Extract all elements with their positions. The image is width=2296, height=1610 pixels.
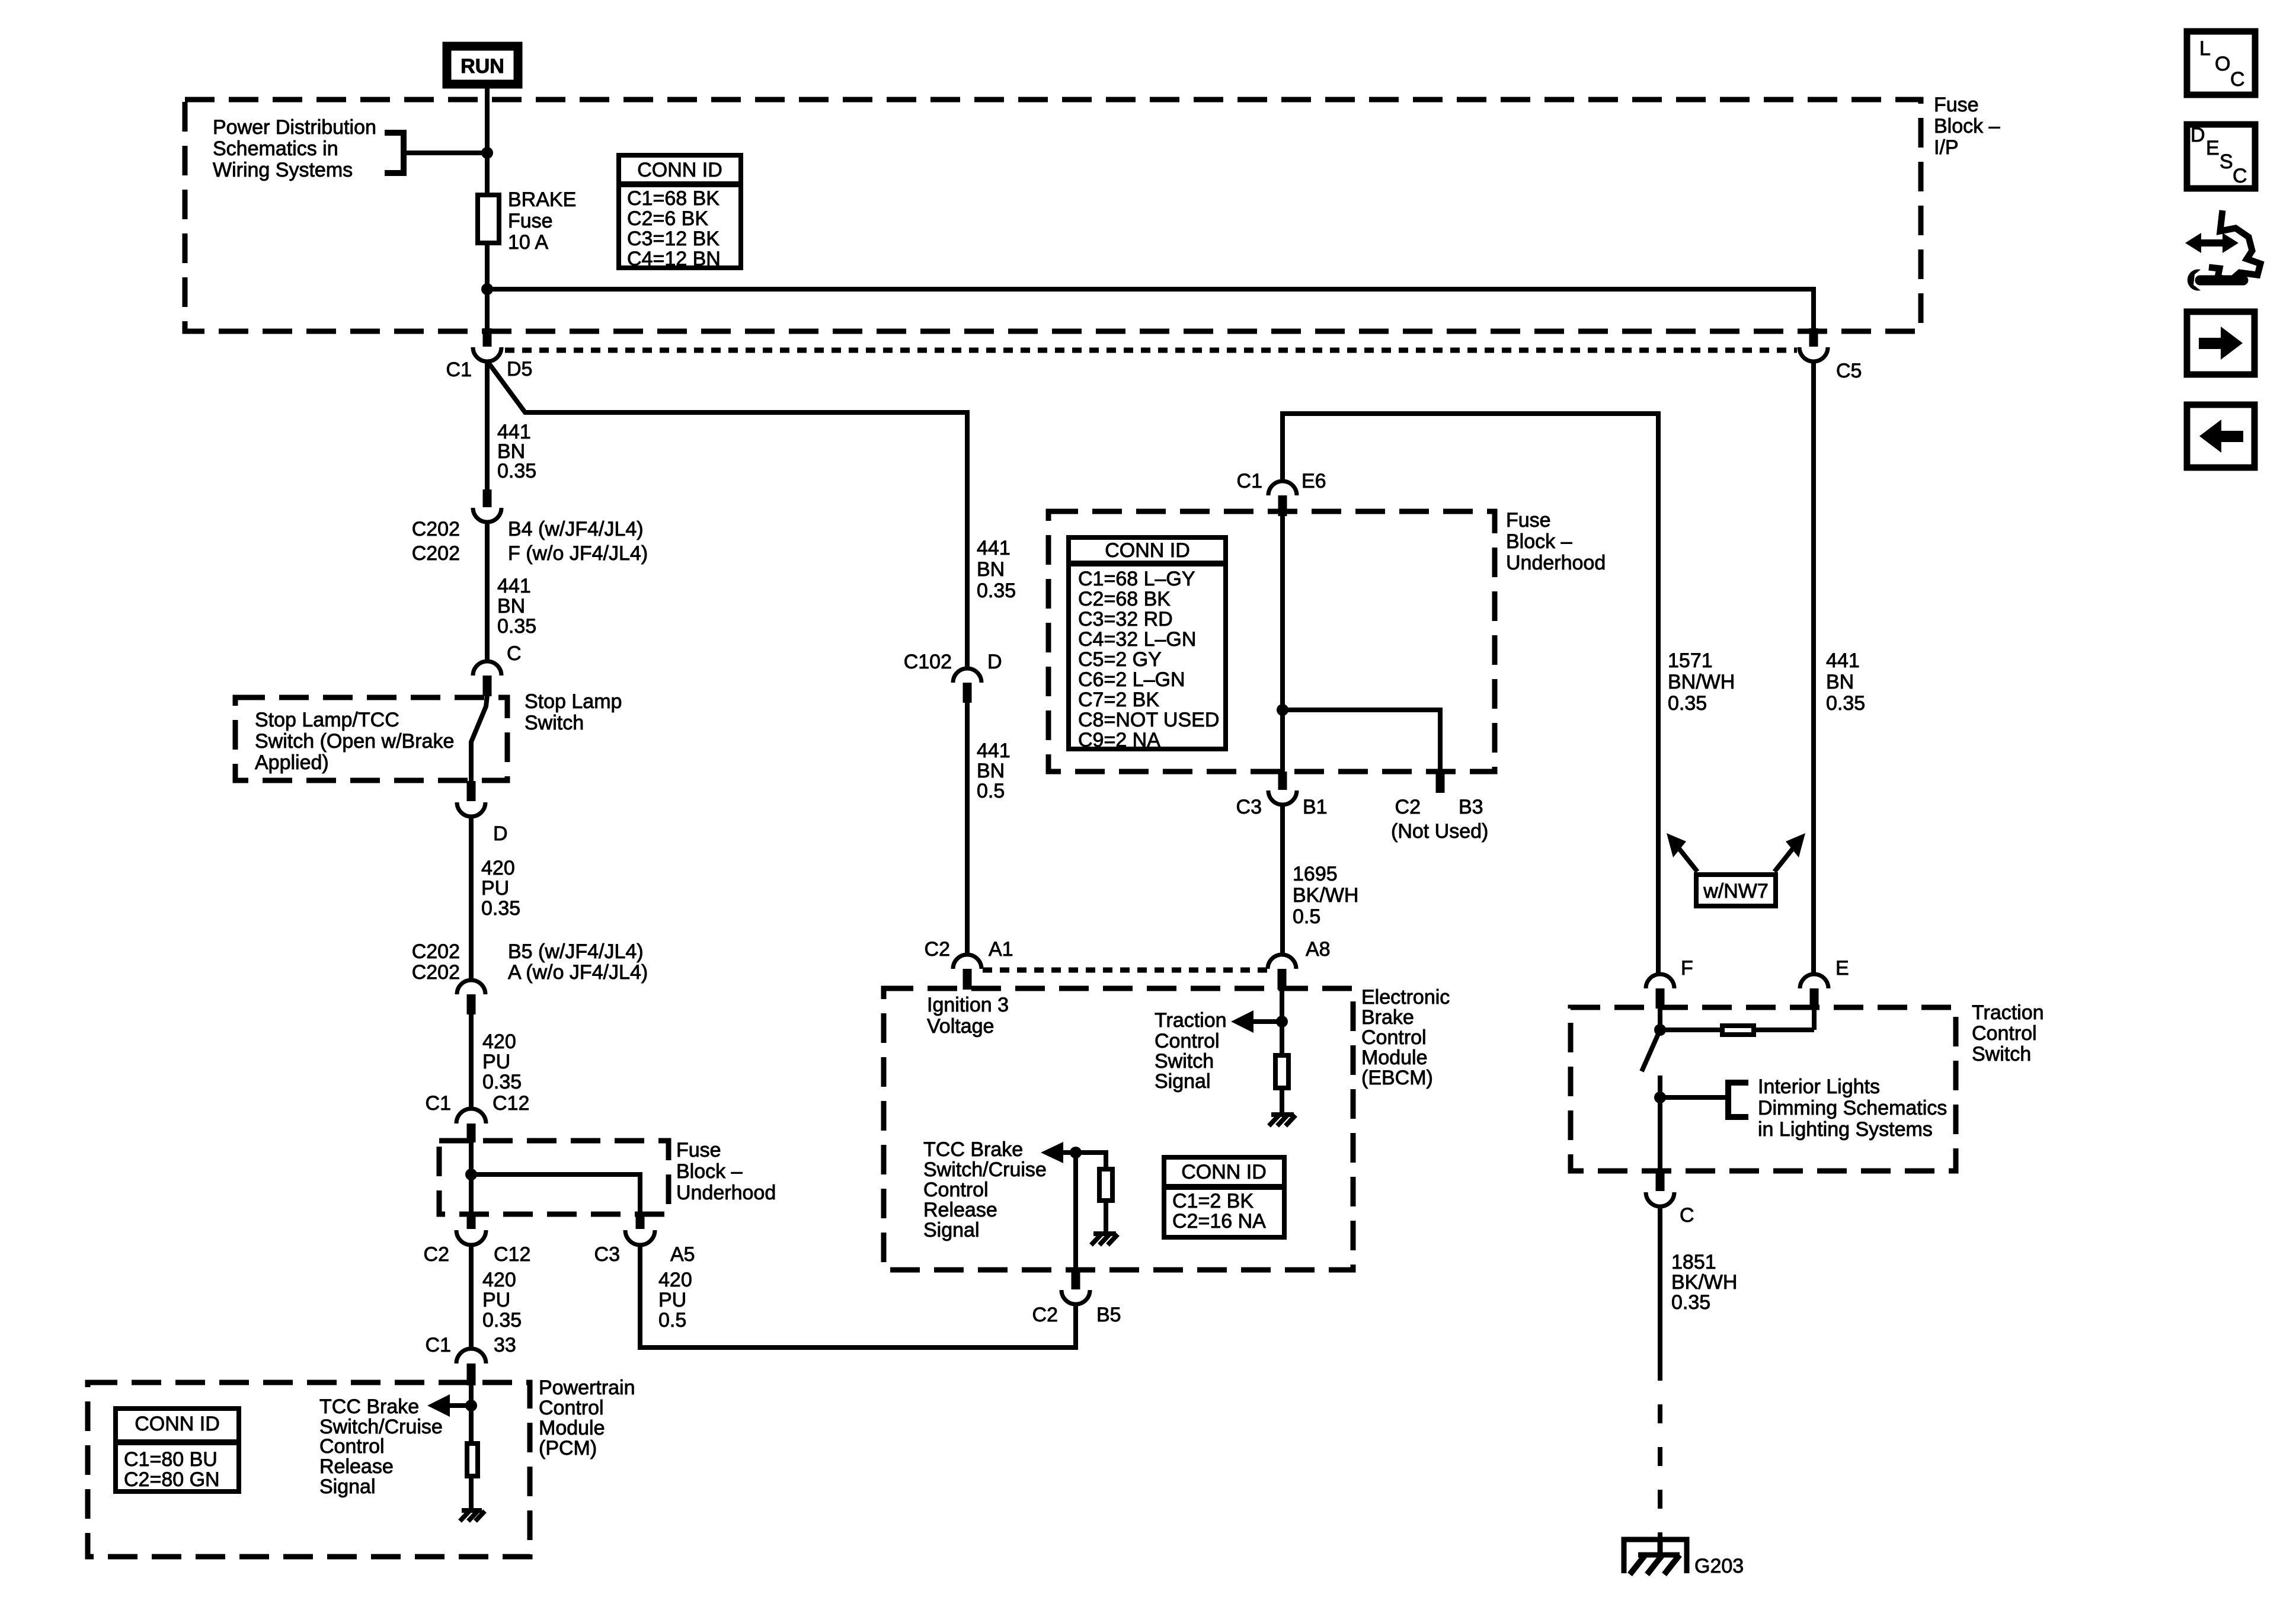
svg-text:Traction: Traction (1972, 1001, 2044, 1024)
fuse block underhood box (left) (439, 1141, 669, 1214)
svg-text:Dimming Schematics: Dimming Schematics (1758, 1097, 1947, 1119)
connector C arc (473, 661, 501, 676)
traction control switch box (1571, 1007, 1956, 1171)
wire TCC resistor to ground (1104, 1201, 1108, 1234)
dotted connector face line C1-C5 (505, 348, 1797, 353)
label C3 / B1 (1236, 796, 1328, 818)
svg-text:Traction: Traction (1155, 1009, 1227, 1032)
junction dot below fuse (481, 283, 493, 295)
svg-text:0.35: 0.35 (1826, 692, 1865, 715)
svg-text:C12: C12 (494, 1243, 530, 1266)
svg-text:C2: C2 (1395, 796, 1421, 818)
svg-text:Stop Lamp: Stop Lamp (525, 690, 622, 713)
svg-text:0.5: 0.5 (658, 1309, 686, 1331)
CONN ID table (PCM) (113, 1409, 241, 1491)
svg-text:Fuse: Fuse (676, 1139, 721, 1161)
svg-text:441: 441 (977, 740, 1011, 762)
svg-text:D: D (987, 651, 1002, 673)
svg-text:Underhood: Underhood (1506, 552, 1606, 574)
connector E6 stub (1278, 495, 1287, 516)
wire B1 to A8 (1280, 805, 1285, 956)
stop lamp switch label (525, 690, 622, 734)
svg-text:Block –: Block – (676, 1160, 743, 1183)
svg-text:C6=2 L–GN: C6=2 L–GN (1078, 668, 1185, 691)
svg-text:CONN ID: CONN ID (637, 159, 722, 181)
wire fuse to junction (485, 243, 490, 329)
wire C202 to C1/C12 (469, 1014, 474, 1109)
connector C2/B5 arc (1061, 1290, 1090, 1304)
svg-text:Signal: Signal (1155, 1070, 1211, 1093)
wire E6 branch (1283, 414, 1658, 975)
svg-text:E: E (1835, 957, 1849, 980)
svg-text:Signal: Signal (319, 1475, 376, 1498)
svg-text:D5: D5 (507, 358, 532, 380)
svg-text:C9=2 NA: C9=2 NA (1078, 729, 1160, 751)
svg-text:BRAKE: BRAKE (508, 188, 576, 211)
PCM label (539, 1377, 635, 1459)
svg-text:D: D (493, 822, 508, 845)
svg-text:0.35: 0.35 (1671, 1291, 1710, 1314)
svg-text:420: 420 (658, 1269, 692, 1291)
in-line connector C102 stub (963, 683, 972, 703)
wire D to C202 (469, 817, 474, 980)
svg-text:10 A: 10 A (508, 231, 548, 254)
svg-text:Fuse: Fuse (1934, 94, 1979, 116)
connector C3/A5 stub (636, 1214, 645, 1229)
svg-text:CONN ID: CONN ID (135, 1413, 220, 1435)
svg-text:w/NW7: w/NW7 (1703, 880, 1769, 902)
svg-text:C3: C3 (594, 1243, 620, 1266)
svg-text:0.35: 0.35 (497, 615, 536, 638)
PCM ground (460, 1510, 485, 1521)
junction dot at bracket (481, 147, 493, 159)
fuse BRAKE 10A symbol (478, 195, 499, 243)
interior lights bracket (1660, 1083, 1748, 1117)
svg-text:E: E (2206, 137, 2220, 159)
svg-text:B5: B5 (1096, 1304, 1121, 1326)
svg-text:F (w/o JF4/JL4): F (w/o JF4/JL4) (508, 542, 648, 565)
svg-text:Switch: Switch (525, 712, 584, 734)
svg-text:1695: 1695 (1293, 863, 1338, 885)
svg-text:Powertrain: Powertrain (539, 1377, 635, 1399)
ground G203 (1624, 1538, 1687, 1574)
svg-text:0.35: 0.35 (1668, 692, 1707, 715)
svg-text:A1: A1 (989, 938, 1013, 961)
svg-text:C4=12 BN: C4=12 BN (627, 248, 721, 270)
wire TCC junction down to B5 (1073, 1153, 1078, 1271)
EBCM label (1361, 986, 1450, 1089)
label C102 / D (904, 651, 1002, 673)
PCM box (88, 1382, 530, 1557)
connector C2/B3 stub (not used) (1436, 772, 1445, 793)
svg-text:in Lighting Systems: in Lighting Systems (1758, 1118, 1933, 1141)
svg-text:TCC Brake: TCC Brake (923, 1138, 1023, 1161)
svg-text:0.35: 0.35 (481, 897, 520, 920)
Power Distribution Schematics note (213, 116, 376, 181)
wire A8 down to resistor (1280, 990, 1284, 1055)
svg-text:C2: C2 (925, 938, 950, 961)
svg-text:PU: PU (482, 1289, 510, 1311)
svg-text:C1: C1 (426, 1092, 451, 1115)
wrench schematic icon (2185, 210, 2260, 291)
svg-text:Switch: Switch (1155, 1050, 1214, 1073)
CONN ID table (EBCM) (1162, 1157, 1287, 1237)
wire resistor to ground (469, 1476, 474, 1510)
svg-text:Power Distribution: Power Distribution (213, 116, 376, 139)
back arrow icon (2187, 405, 2255, 468)
svg-text:C: C (2230, 68, 2245, 91)
svg-text:420: 420 (482, 1030, 516, 1053)
svg-text:A (w/o JF4/JL4): A (w/o JF4/JL4) (508, 961, 648, 984)
svg-text:BN: BN (977, 558, 1005, 581)
svg-text:C202: C202 (412, 961, 460, 984)
connector C3/B1 stub (1278, 772, 1287, 790)
traction control switch label (1972, 1001, 2044, 1065)
svg-text:G203: G203 (1694, 1555, 1744, 1577)
svg-text:C: C (2233, 165, 2247, 187)
svg-text:1851: 1851 (1671, 1251, 1716, 1273)
svg-text:0.35: 0.35 (482, 1071, 522, 1093)
svg-text:C1=68 L–GY: C1=68 L–GY (1078, 568, 1195, 590)
EBCM box (884, 988, 1353, 1270)
svg-text:C1: C1 (1237, 470, 1262, 492)
junction dot interior lights (1654, 1092, 1666, 1103)
CONN ID table (underhood) (1066, 537, 1228, 751)
svg-text:33: 33 (494, 1334, 516, 1356)
wire junction to C5 drop (487, 289, 1814, 329)
wire label 420 PU 0.35 (482, 1030, 522, 1093)
svg-text:C202: C202 (412, 940, 460, 963)
wire dashed section to G203 (1658, 1362, 1662, 1538)
svg-text:Control: Control (1155, 1030, 1220, 1052)
svg-text:S: S (2220, 151, 2233, 173)
junction dot TCS (1276, 1016, 1288, 1028)
wire C1 down to C202 (485, 361, 490, 491)
svg-text:420: 420 (482, 1269, 516, 1291)
junction dot switch top (1654, 1024, 1666, 1036)
wire label 1851 BK/WH 0.35 (1671, 1251, 1737, 1314)
connector C stub (traction) (1656, 1171, 1665, 1191)
svg-text:I/P: I/P (1934, 136, 1959, 159)
wire D5 branch to C102 (488, 363, 967, 668)
wire label 1695 BK/WH 0.5 (1293, 863, 1358, 928)
connector C1/D5 arc (473, 347, 501, 361)
svg-text:PU: PU (481, 877, 509, 900)
svg-text:B3: B3 (1459, 796, 1483, 818)
svg-text:Control: Control (539, 1397, 604, 1419)
svg-text:Schematics in: Schematics in (213, 137, 338, 160)
svg-text:CONN ID: CONN ID (1181, 1161, 1267, 1183)
wire TCS resistor to ground (1280, 1088, 1284, 1115)
svg-text:441: 441 (1826, 649, 1860, 672)
svg-text:(PCM): (PCM) (539, 1437, 597, 1459)
connector E arc (1800, 974, 1828, 988)
label C202 / B4 row (412, 518, 644, 540)
connector C1/33 arc (456, 1349, 486, 1363)
svg-text:C202: C202 (412, 542, 460, 565)
bracket to power distribution note (385, 133, 404, 173)
svg-text:B5 (w/JF4/JL4): B5 (w/JF4/JL4) (508, 940, 644, 963)
label C1 / C12 (426, 1092, 530, 1115)
in-line connector C202 stub (467, 994, 476, 1014)
svg-text:Control: Control (319, 1435, 385, 1458)
svg-text:C2: C2 (1032, 1304, 1058, 1326)
label C2 / B5 (1032, 1304, 1121, 1326)
svg-text:420: 420 (481, 857, 515, 879)
svg-text:Stop Lamp/TCC: Stop Lamp/TCC (255, 709, 399, 731)
svg-text:A8: A8 (1306, 938, 1331, 961)
svg-text:0.35: 0.35 (482, 1309, 522, 1331)
svg-text:441: 441 (977, 537, 1011, 559)
wire fuse block top to fuse (485, 100, 490, 195)
connector C arc (traction) (1646, 1192, 1674, 1206)
svg-text:BK/WH: BK/WH (1293, 884, 1358, 907)
connector C3/A5 arc (625, 1230, 655, 1245)
label C3 / A5 (594, 1243, 695, 1266)
connector C5 arc (1799, 347, 1828, 361)
svg-text:Switch (Open w/Brake: Switch (Open w/Brake (255, 730, 454, 753)
in-line connector C102 arc (953, 668, 981, 683)
svg-text:B4 (w/JF4/JL4): B4 (w/JF4/JL4) (508, 518, 644, 540)
svg-text:(Not Used): (Not Used) (1391, 820, 1488, 843)
stop lamp switch blade (471, 696, 487, 782)
svg-text:Block –: Block – (1934, 115, 2000, 137)
wire C to ground solid (1658, 1206, 1662, 1362)
svg-text:CONN ID: CONN ID (1105, 539, 1190, 562)
interior lights note (1758, 1076, 1947, 1141)
svg-text:Electronic: Electronic (1361, 986, 1450, 1009)
svg-text:0.35: 0.35 (977, 580, 1016, 602)
fuse block I/P dashed box (185, 100, 1921, 331)
svg-text:C3=12 BK: C3=12 BK (627, 228, 720, 250)
svg-text:Interior Lights: Interior Lights (1758, 1076, 1880, 1098)
EBCM ground (TCC) (1091, 1234, 1118, 1245)
svg-text:C12: C12 (493, 1092, 529, 1115)
svg-text:Brake: Brake (1361, 1006, 1414, 1029)
forward arrow icon (2187, 312, 2255, 375)
EBCM resistor (TCC) (1099, 1169, 1112, 1201)
svg-text:Switch/Cruise: Switch/Cruise (923, 1158, 1047, 1181)
wire label 441 BN 0.35 (mid) (977, 537, 1016, 602)
label C202 / B5 row (412, 940, 644, 963)
label C1 / 33 (426, 1334, 516, 1356)
EBCM resistor (TCS) (1275, 1055, 1288, 1088)
svg-text:Control: Control (1972, 1022, 2037, 1045)
TCC release signal arrow (427, 1394, 471, 1417)
Traction Control Switch Signal note (1155, 1009, 1227, 1093)
connector C2/C12 arc (456, 1230, 486, 1245)
svg-text:C5: C5 (1836, 360, 1862, 382)
in-line connector C202 arc (457, 980, 485, 994)
wire RUN to fuse block (485, 88, 490, 102)
connector E6 arc (1268, 481, 1297, 495)
svg-text:C4=32 L–GN: C4=32 L–GN (1078, 628, 1196, 651)
w/NW7 arrows (1667, 833, 1805, 872)
svg-text:Block –: Block – (1506, 530, 1572, 553)
wire label 1571 BN/WH 0.35 (1668, 649, 1735, 715)
svg-text:C8=NOT USED: C8=NOT USED (1078, 709, 1219, 731)
svg-text:Fuse: Fuse (508, 210, 553, 232)
connector D stub (467, 781, 476, 801)
wire below switch (1658, 1076, 1662, 1172)
svg-text:0.5: 0.5 (977, 780, 1005, 802)
traction signal arrow (1231, 1010, 1282, 1033)
connector F arc (1646, 974, 1674, 988)
svg-text:C3: C3 (1236, 796, 1262, 818)
svg-text:C2: C2 (424, 1243, 449, 1266)
wire C102 to A1 (965, 703, 970, 956)
svg-text:BN: BN (977, 760, 1005, 782)
TCC brake note (EBCM) (923, 1138, 1047, 1241)
svg-text:1571: 1571 (1668, 649, 1713, 672)
label C202 / A row (412, 961, 648, 984)
svg-text:PU: PU (658, 1289, 686, 1311)
connector D arc (457, 802, 485, 817)
connector C stub (483, 676, 492, 696)
connector C2/A1 stub (963, 969, 972, 990)
wire C2/C12 to C1/33 (469, 1244, 474, 1350)
BRAKE fuse value label (508, 188, 576, 254)
svg-text:Wiring Systems: Wiring Systems (213, 159, 353, 181)
wire label 441 BN 0.35 (right) (1826, 649, 1865, 715)
svg-text:C: C (1680, 1204, 1694, 1227)
connector A8 stub (1278, 969, 1287, 990)
svg-text:E6: E6 (1302, 470, 1326, 492)
svg-text:C2=80 GN: C2=80 GN (124, 1468, 220, 1491)
svg-text:BN/WH: BN/WH (1668, 671, 1735, 693)
wire junction to B3 (1283, 710, 1440, 773)
wire inside fuse block (469, 1142, 474, 1215)
svg-text:BN: BN (1826, 671, 1854, 693)
svg-text:TCC Brake: TCC Brake (319, 1395, 419, 1418)
wire C5 to E (1811, 361, 1816, 975)
connector C1/D5 stub (483, 328, 492, 347)
svg-text:Ignition 3: Ignition 3 (927, 994, 1009, 1016)
CONN ID table (fuse block I/P) (616, 155, 743, 270)
dotted connector face line A1-A8 (983, 968, 1267, 973)
svg-text:C2=16 NA: C2=16 NA (1172, 1210, 1266, 1233)
wire into PCM (469, 1385, 474, 1443)
svg-text:Switch: Switch (1972, 1043, 2031, 1065)
wire E to junction (1812, 1009, 1817, 1030)
svg-text:B1: B1 (1303, 796, 1328, 818)
svg-text:C2=6 BK: C2=6 BK (627, 207, 708, 230)
TCC brake note (PCM) (319, 1395, 443, 1498)
connector C1/C12 arc (456, 1109, 486, 1124)
svg-text:C3=32 RD: C3=32 RD (1078, 608, 1173, 630)
wire A5 to B5 (640, 1244, 1076, 1347)
connector C1/33 stub (467, 1363, 476, 1385)
svg-text:(EBCM): (EBCM) (1361, 1067, 1433, 1089)
in-line connector C202 stub (483, 489, 492, 507)
w/NW7 option box (1696, 875, 1776, 906)
connector C2/A1 arc (953, 955, 981, 969)
connector A8 arc (1268, 955, 1296, 969)
svg-text:Release: Release (923, 1199, 997, 1221)
wire F to junction (1658, 1009, 1662, 1030)
label C1 / E6 (1237, 470, 1326, 492)
connector C1/C12 stub (467, 1124, 476, 1142)
TCC arrow (EBCM) (1041, 1142, 1076, 1163)
PCM resistor (467, 1443, 478, 1476)
connector C2/B5 stub (1072, 1270, 1080, 1289)
junction dot underhood (1277, 704, 1288, 716)
connector C5 stub (1809, 328, 1818, 347)
junction dot in PCM (465, 1400, 477, 1411)
svg-text:Applied): Applied) (255, 751, 329, 774)
svg-text:Underhood: Underhood (676, 1182, 776, 1204)
wire label 441 BN 0.35 (497, 575, 536, 638)
svg-text:O: O (2215, 53, 2230, 75)
svg-text:Control: Control (923, 1179, 989, 1201)
wire label 420 PU 0.35 (481, 857, 520, 920)
connector C3/B1 arc (1268, 790, 1297, 805)
svg-text:L: L (2199, 37, 2211, 60)
wire label 441 BN 0.5 (977, 740, 1011, 802)
stop lamp switch box (235, 697, 507, 780)
svg-text:C1=2 BK: C1=2 BK (1172, 1190, 1253, 1212)
svg-text:Module: Module (539, 1417, 605, 1439)
switch blade (open) (1642, 1030, 1660, 1071)
wire junction to TCC resistor (1076, 1153, 1106, 1169)
svg-text:Fuse: Fuse (1506, 509, 1551, 532)
svg-text:C2=68 BK: C2=68 BK (1078, 588, 1171, 610)
svg-text:C1=68 BK: C1=68 BK (627, 187, 720, 210)
label C2 / A1 (925, 938, 1013, 961)
description icon (2187, 124, 2255, 188)
svg-text:F: F (1681, 957, 1693, 980)
EBCM ground (TCS) (1269, 1115, 1296, 1126)
svg-text:441: 441 (497, 575, 531, 597)
svg-text:RUN: RUN (461, 55, 504, 78)
svg-text:C: C (507, 642, 522, 665)
wire label 420 PU 0.5 (658, 1269, 692, 1331)
connector C2/C12 stub (467, 1214, 476, 1229)
junction dot TCC (1070, 1147, 1082, 1158)
location icon (2187, 31, 2255, 95)
svg-text:PU: PU (482, 1051, 510, 1073)
in-line connector C202 arc (473, 508, 501, 522)
label C2 / B3 (1395, 796, 1483, 818)
svg-text:0.35: 0.35 (497, 460, 536, 482)
wire label 441 BN 0.35 (497, 421, 536, 482)
wire junction to A5 drop (471, 1174, 640, 1215)
Ignition 3 Voltage label (927, 994, 1009, 1038)
Fuse Block I/P label (1934, 94, 2000, 159)
fuse block underhood box (right) (1048, 511, 1495, 772)
svg-text:C1=80 BU: C1=80 BU (124, 1448, 218, 1471)
RUN ignition switch box (447, 46, 518, 84)
svg-text:C1: C1 (426, 1334, 451, 1356)
svg-text:D: D (2191, 124, 2205, 146)
resistor wires (1660, 1028, 1720, 1032)
traction switch resistor (1722, 1026, 1754, 1035)
svg-text:C202: C202 (412, 518, 460, 540)
svg-text:C1: C1 (446, 359, 472, 381)
svg-text:Voltage: Voltage (927, 1015, 994, 1038)
svg-text:Control: Control (1361, 1026, 1427, 1049)
wire C202 to C (485, 522, 490, 662)
svg-text:C5=2 GY: C5=2 GY (1078, 648, 1162, 671)
svg-text:Signal: Signal (923, 1219, 980, 1241)
connector E stub (1810, 988, 1819, 1009)
stop lamp/TCC note (255, 709, 454, 774)
connector F stub (1656, 988, 1665, 1009)
junction dot in fuse block (465, 1169, 477, 1180)
svg-text:A5: A5 (670, 1243, 695, 1266)
label C202 / F row (412, 542, 648, 565)
svg-text:C102: C102 (904, 651, 952, 673)
